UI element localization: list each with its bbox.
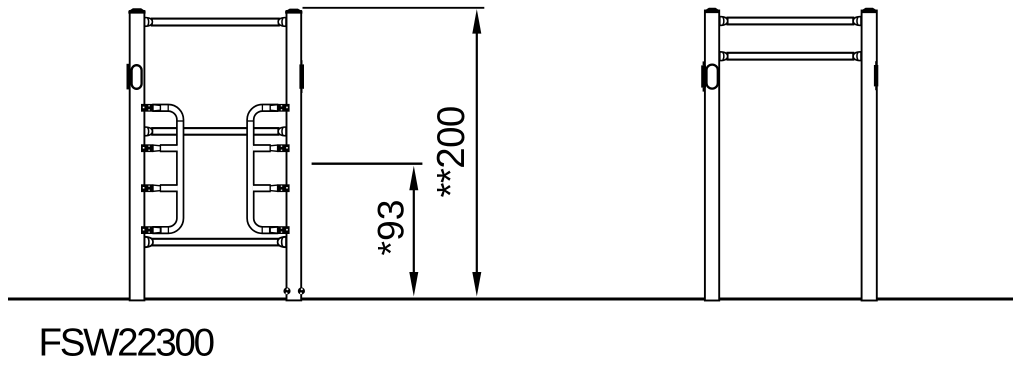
- bar2 left dome: [720, 52, 728, 61]
- svg-text:*93: *93: [370, 200, 412, 256]
- ground line: [8, 298, 1013, 301]
- right post: [287, 11, 302, 300]
- handle notch bottom left post (right structure): [703, 88, 705, 92]
- top bar left dome: [145, 18, 153, 27]
- bar1 left dome: [720, 17, 728, 26]
- T-tube row3 left: [160, 145, 178, 151]
- top bar tube: [152, 19, 279, 26]
- sleeve joint row1 right: [261, 105, 263, 112]
- T-tube row4 right: [253, 185, 271, 191]
- clamp row4 left: [141, 184, 160, 192]
- rung row2 right dome: [278, 127, 286, 136]
- clamp row3 left: [141, 144, 160, 152]
- arrow down **200: [472, 272, 481, 297]
- clamp row1 right: [270, 104, 289, 112]
- handle bar right post (right structure): [874, 65, 878, 86]
- anchor circle left: [283, 287, 290, 294]
- handle capsule left post: [132, 65, 142, 89]
- arrow down *93: [409, 272, 418, 297]
- joint line on left stile below top elbow: [177, 120, 183, 122]
- handle notch top right post: [301, 60, 303, 64]
- T-tube row4 left: [160, 185, 178, 191]
- anchor circle slits: [286, 288, 288, 290]
- left post: [705, 11, 719, 301]
- clamp row1 left: [141, 104, 160, 112]
- top bar right dome: [278, 18, 286, 27]
- left post: [130, 11, 145, 300]
- dimension extension line top (from right post top): [303, 7, 485, 9]
- dimension extension line *93: [312, 162, 423, 164]
- dimension line **200: [476, 22, 478, 285]
- cap left post: [128, 8, 145, 13]
- clamp row5 right: [270, 226, 289, 234]
- rung row6 right dome: [278, 237, 286, 247]
- right C-tube (ladder stile with top+bottom elbows): [247, 105, 277, 234]
- cap right post (right structure): [861, 8, 877, 13]
- rung row2 left dome: [145, 127, 153, 136]
- handle notch bottom right post (right structure): [875, 86, 877, 90]
- T-tube row3 right: [253, 145, 271, 151]
- dimension line *93: [413, 175, 415, 285]
- handle bar left post (right structure): [701, 65, 706, 87]
- anchor circle right: [298, 287, 305, 294]
- handle notch top right post (right structure): [875, 61, 877, 65]
- handle bar left post: [127, 64, 130, 90]
- arrow up **200: [472, 9, 481, 34]
- arrow up *93: [409, 166, 418, 191]
- sleeve joint row1 left: [167, 105, 169, 112]
- rung row6 (bottom) tube: [152, 239, 278, 246]
- sleeve joints row5 left: [161, 227, 168, 234]
- handle capsule left post (right structure): [707, 65, 718, 89]
- svg-text:FSW22300: FSW22300: [39, 322, 214, 365]
- sleeve joints row5 right: [262, 227, 269, 234]
- cap left post (right structure): [704, 8, 720, 13]
- svg-text:**200: **200: [430, 106, 473, 197]
- clamp row3 right: [270, 144, 289, 152]
- bar2 tube: [728, 53, 854, 60]
- clamp row5 left: [141, 226, 160, 234]
- cap right post: [285, 9, 302, 14]
- bar1 tube: [728, 18, 854, 25]
- handle bar right post: [299, 64, 304, 88]
- handle notch bottom right post: [301, 89, 303, 93]
- handle notch top left post (right structure): [703, 61, 705, 65]
- rung row6 left dome: [145, 237, 153, 247]
- clamp row4 right: [270, 184, 289, 192]
- rung row2 tube: [152, 128, 278, 135]
- bar1 right dome: [853, 17, 861, 26]
- joint line on right stile below top elbow: [247, 120, 253, 122]
- left C-tube (ladder stile with top+bottom elbows): [153, 105, 183, 234]
- bar2 right dome: [853, 52, 861, 61]
- right post: [862, 11, 877, 301]
